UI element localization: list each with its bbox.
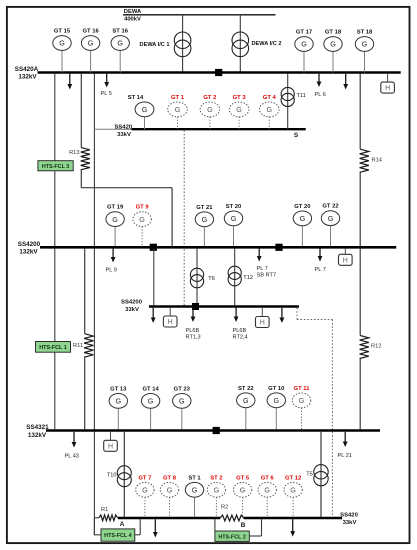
wire HTS-FCL 2 right bbox=[249, 519, 261, 536]
svg-text:33kV: 33kV bbox=[125, 307, 139, 313]
wire DEWA I/C 2 to SS420A bbox=[239, 15, 241, 73]
svg-text:PL 21: PL 21 bbox=[338, 453, 352, 459]
svg-text:GT 19: GT 19 bbox=[107, 205, 124, 211]
load arrow on 33kV bus bbox=[151, 308, 156, 323]
svg-text:SS4200: SS4200 bbox=[18, 241, 41, 248]
wire T5 bbox=[320, 432, 322, 517]
svg-text:33kV: 33kV bbox=[343, 520, 357, 526]
svg-text:ST 1: ST 1 bbox=[188, 475, 201, 481]
svg-text:ST 18: ST 18 bbox=[357, 30, 373, 36]
svg-text:HTS-FCL 3: HTS-FCL 3 bbox=[42, 164, 69, 170]
label SS420A 132kV bbox=[15, 66, 39, 81]
wire R14 to SS4200 bbox=[359, 172, 361, 246]
bus SS420 33kV bbox=[132, 128, 306, 130]
generator ST22 bbox=[237, 386, 255, 429]
transformer T12 bbox=[228, 266, 253, 286]
wire SS420A to HTS-FCL 3 bbox=[54, 74, 56, 161]
FCL box HTS-FCL 3 bbox=[38, 161, 73, 171]
svg-text:T6: T6 bbox=[208, 276, 215, 282]
wire HTS-FCL 4 right bbox=[135, 519, 140, 535]
svg-text:G: G bbox=[175, 105, 181, 114]
breaker square 2 on SS4200 bus bbox=[275, 244, 282, 251]
svg-text:G: G bbox=[179, 397, 185, 406]
bus SS420 33kV section B bbox=[244, 517, 342, 519]
generator GT10 bbox=[267, 386, 285, 429]
svg-text:GT 14: GT 14 bbox=[142, 386, 159, 392]
wire HTS-FCL 2 left bbox=[214, 519, 216, 531]
svg-text:G: G bbox=[362, 40, 368, 49]
generator GT4 bbox=[260, 95, 280, 129]
generator GT13 bbox=[109, 386, 127, 429]
breaker square on SS4200 33kV bus bbox=[192, 303, 199, 310]
svg-text:GT 2: GT 2 bbox=[203, 95, 217, 101]
load arrow right on SS420A bbox=[343, 74, 348, 90]
svg-text:T10: T10 bbox=[107, 472, 117, 478]
transformer DEWA I/C 2 bbox=[232, 32, 281, 57]
wire R13 elbow to SS4200 bbox=[81, 170, 172, 246]
load arrow A section bbox=[153, 519, 158, 537]
svg-text:T5: T5 bbox=[306, 472, 313, 478]
transformer T6 bbox=[190, 268, 214, 288]
load PL 5 bbox=[101, 74, 112, 97]
H device on SS4200 bbox=[339, 249, 353, 266]
svg-text:G: G bbox=[236, 105, 242, 114]
load PL 6 bbox=[315, 74, 326, 98]
svg-text:GT 6: GT 6 bbox=[261, 475, 275, 481]
label S section bbox=[294, 132, 299, 139]
H device on SS4321 bbox=[104, 432, 118, 452]
transformer T10 bbox=[107, 466, 131, 487]
svg-text:HTS-FCL 1: HTS-FCL 1 bbox=[39, 345, 66, 351]
svg-text:H: H bbox=[108, 443, 113, 450]
svg-text:PL 6: PL 6 bbox=[315, 92, 326, 98]
resistor R14 bbox=[360, 149, 382, 172]
generator GT7 bbox=[136, 475, 154, 517]
svg-text:132kV: 132kV bbox=[18, 73, 37, 80]
svg-text:R11: R11 bbox=[73, 343, 83, 349]
wire R11 to SS4321 bbox=[84, 357, 86, 429]
svg-text:ST 16: ST 16 bbox=[112, 29, 128, 35]
label SS420 33kV bottom bbox=[340, 512, 358, 526]
breaker square on SS4321 bus bbox=[213, 427, 220, 434]
svg-text:GT 3: GT 3 bbox=[233, 95, 247, 101]
svg-text:S: S bbox=[294, 132, 299, 139]
svg-text:GT 21: GT 21 bbox=[196, 205, 213, 211]
resistor R1 bbox=[99, 507, 118, 521]
svg-text:DEWA: DEWA bbox=[124, 9, 142, 15]
svg-text:PL6B: PL6B bbox=[186, 328, 200, 334]
transformer T5 bbox=[306, 465, 328, 486]
generator ST1 bbox=[185, 475, 203, 517]
svg-text:G: G bbox=[192, 486, 198, 495]
label R2 node B bbox=[241, 522, 246, 529]
FCL box HTS-FCL 4 bbox=[101, 529, 135, 541]
label SS4200 132kV bbox=[18, 241, 41, 256]
wire SS420A to bottom tie (x=94.4) bbox=[93, 74, 95, 536]
svg-text:GT 23: GT 23 bbox=[174, 386, 191, 392]
generator GT21 bbox=[195, 205, 213, 246]
generator GT15 bbox=[53, 29, 71, 73]
load PL 9 bbox=[106, 249, 117, 274]
svg-text:G: G bbox=[330, 40, 336, 49]
svg-text:G: G bbox=[167, 486, 173, 495]
svg-text:R13: R13 bbox=[69, 150, 79, 156]
load PL 7 right bbox=[315, 249, 326, 273]
svg-text:PL 7: PL 7 bbox=[257, 266, 268, 272]
svg-text:G: G bbox=[301, 40, 307, 49]
wire HTS-FCL 4 left bbox=[94, 518, 101, 535]
svg-text:PL 7: PL 7 bbox=[315, 267, 326, 273]
generator GT1 bbox=[168, 95, 188, 129]
H device left on 33kV bus bbox=[163, 308, 177, 327]
load PL 21 bbox=[338, 432, 352, 459]
H device on SS420A bbox=[381, 74, 395, 93]
load PL6B RT2,4 bbox=[233, 308, 248, 341]
generator GT8 bbox=[160, 475, 178, 517]
svg-text:PL 9: PL 9 bbox=[106, 268, 117, 274]
svg-text:ST 20: ST 20 bbox=[226, 204, 242, 210]
svg-text:H: H bbox=[260, 320, 265, 327]
wire SS4200 to R11 bbox=[84, 249, 86, 334]
resistor R2 bbox=[220, 505, 243, 521]
generator GT5 bbox=[233, 475, 251, 517]
svg-text:GT 12: GT 12 bbox=[285, 475, 302, 481]
svg-text:SB RT7: SB RT7 bbox=[257, 273, 276, 279]
svg-text:A: A bbox=[120, 521, 125, 528]
svg-text:ST 14: ST 14 bbox=[128, 95, 144, 101]
label SS4200 33kV bbox=[121, 299, 143, 313]
svg-text:H: H bbox=[385, 85, 390, 92]
svg-text:G: G bbox=[290, 486, 296, 495]
load PL 7 SB RT7 bbox=[257, 249, 276, 279]
wire SS4200 to HTS-FCL 1 bbox=[54, 249, 56, 342]
svg-text:ST 22: ST 22 bbox=[238, 386, 254, 392]
bus DEWA 400kV bbox=[123, 9, 276, 22]
svg-text:GT 1: GT 1 bbox=[171, 95, 185, 101]
wire HTS-FCL 3 to SS4200 bbox=[54, 171, 56, 246]
svg-text:SS420: SS420 bbox=[340, 512, 358, 518]
svg-text:SS4321: SS4321 bbox=[26, 424, 49, 431]
generator ST20 bbox=[224, 204, 242, 246]
resistor R13 bbox=[69, 148, 90, 170]
resistor R12 bbox=[360, 336, 382, 359]
svg-text:400kV: 400kV bbox=[124, 17, 141, 23]
svg-text:R12: R12 bbox=[371, 344, 381, 350]
svg-text:HTS-FCL 4: HTS-FCL 4 bbox=[104, 533, 131, 539]
transformer DEWA I/C 1 bbox=[140, 32, 191, 57]
svg-text:GT 10: GT 10 bbox=[268, 386, 285, 392]
generator GT14 bbox=[141, 386, 159, 429]
svg-text:GT 8: GT 8 bbox=[163, 475, 177, 481]
svg-text:GT 22: GT 22 bbox=[322, 204, 339, 210]
svg-text:GT 13: GT 13 bbox=[110, 386, 127, 392]
bus SS4321 132kV bbox=[46, 429, 380, 432]
svg-text:PL 5: PL 5 bbox=[101, 91, 112, 97]
svg-text:R1: R1 bbox=[101, 507, 108, 513]
load PL6B RT1,3 bbox=[186, 308, 201, 341]
svg-text:G: G bbox=[142, 486, 148, 495]
bus SS420A 132kV bbox=[38, 71, 401, 74]
generator GT3 bbox=[229, 95, 249, 129]
svg-text:G: G bbox=[202, 215, 208, 224]
svg-text:GT 5: GT 5 bbox=[236, 475, 250, 481]
svg-text:G: G bbox=[231, 214, 237, 223]
svg-text:G: G bbox=[274, 396, 280, 405]
wire 33kV bus left stub bbox=[94, 128, 131, 130]
FCL box HTS-FCL 2 bbox=[215, 531, 249, 541]
svg-text:H: H bbox=[168, 319, 173, 326]
svg-text:G: G bbox=[299, 396, 305, 405]
svg-text:G: G bbox=[207, 105, 213, 114]
wire T12 bbox=[234, 249, 236, 306]
generator GT17 bbox=[295, 30, 313, 73]
svg-text:132kV: 132kV bbox=[19, 248, 38, 255]
svg-text:GT 11: GT 11 bbox=[294, 386, 311, 392]
svg-text:HTS-FCL 2: HTS-FCL 2 bbox=[218, 534, 245, 540]
svg-text:GT 18: GT 18 bbox=[325, 30, 342, 36]
svg-text:GT 20: GT 20 bbox=[294, 204, 311, 210]
label SS420 33kV bbox=[114, 124, 132, 138]
svg-text:G: G bbox=[116, 397, 122, 406]
svg-text:G: G bbox=[139, 215, 145, 224]
resistor R11 bbox=[73, 334, 93, 358]
svg-text:33kV: 33kV bbox=[117, 132, 131, 138]
svg-text:B: B bbox=[241, 522, 246, 529]
breaker square on SS420A bus bbox=[215, 69, 222, 76]
svg-text:GT 4: GT 4 bbox=[263, 95, 277, 101]
svg-text:G: G bbox=[264, 486, 270, 495]
wire SS4200 to R12 bbox=[359, 249, 361, 336]
svg-text:G: G bbox=[117, 39, 123, 48]
svg-text:SS420A: SS420A bbox=[15, 66, 39, 73]
generator GT19 bbox=[106, 205, 124, 246]
svg-text:GT 7: GT 7 bbox=[138, 475, 151, 481]
generator GT18 bbox=[324, 30, 342, 73]
generator GT22 bbox=[321, 204, 339, 246]
svg-text:R14: R14 bbox=[372, 158, 382, 164]
svg-text:T12: T12 bbox=[243, 275, 253, 281]
svg-text:PL 43: PL 43 bbox=[65, 454, 79, 460]
generator ST18 bbox=[355, 30, 373, 73]
wire T11 bbox=[287, 74, 289, 129]
svg-text:G: G bbox=[214, 486, 220, 495]
H device right on 33kV bus bbox=[256, 308, 270, 328]
wire HTS-FCL 1 to SS4321 bbox=[54, 352, 56, 429]
wire T6 bbox=[196, 249, 198, 306]
wire SS420A to R14 bbox=[359, 74, 361, 149]
svg-text:DEWA I/C 2: DEWA I/C 2 bbox=[252, 41, 282, 47]
generator ST16 bbox=[111, 29, 129, 73]
svg-text:GT 15: GT 15 bbox=[54, 29, 71, 35]
svg-text:SS4200: SS4200 bbox=[121, 299, 143, 305]
svg-text:ST 2: ST 2 bbox=[210, 475, 223, 481]
bus SS4200 132kV bbox=[40, 246, 396, 249]
svg-text:G: G bbox=[148, 397, 154, 406]
generator GT20 bbox=[293, 204, 311, 246]
generator ST14 bbox=[128, 95, 154, 129]
svg-text:SS420: SS420 bbox=[114, 124, 132, 130]
load PL 43 bbox=[65, 432, 79, 460]
generator GT9 bbox=[133, 205, 151, 246]
svg-text:G: G bbox=[88, 39, 94, 48]
svg-text:GT 17: GT 17 bbox=[296, 30, 312, 36]
transformer T11 bbox=[281, 87, 306, 106]
svg-text:GT 9: GT 9 bbox=[136, 205, 150, 211]
svg-text:132kV: 132kV bbox=[28, 432, 47, 439]
svg-text:G: G bbox=[243, 396, 249, 405]
FCL box HTS-FCL 1 bbox=[36, 342, 71, 353]
svg-text:G: G bbox=[59, 39, 65, 48]
label R1 node A bbox=[120, 521, 125, 528]
load arrow on SS420A bbox=[67, 74, 72, 90]
generator GT2 bbox=[200, 95, 220, 129]
label SS4321 132kV bbox=[26, 424, 49, 439]
generator GT11 bbox=[292, 386, 310, 429]
bus SS420 33kV section A bbox=[118, 517, 220, 519]
svg-text:G: G bbox=[112, 215, 118, 224]
wire SS4200 to 33kV bus bbox=[153, 249, 155, 306]
svg-text:R2: R2 bbox=[221, 505, 228, 511]
svg-text:RT1,3: RT1,3 bbox=[186, 334, 201, 340]
breaker square 1 on SS4200 bus bbox=[150, 244, 157, 251]
wire T10 bbox=[123, 432, 125, 517]
generator GT6 bbox=[258, 475, 276, 517]
svg-text:T11: T11 bbox=[297, 93, 306, 99]
svg-text:PL6B: PL6B bbox=[233, 328, 247, 334]
wire R12 to SS4321 bbox=[359, 359, 361, 430]
svg-text:RT2,4: RT2,4 bbox=[233, 334, 248, 340]
wire R1 lead bbox=[94, 517, 99, 519]
svg-text:G: G bbox=[267, 105, 273, 114]
svg-text:G: G bbox=[240, 486, 246, 495]
svg-text:GT 16: GT 16 bbox=[82, 29, 99, 35]
generator GT16 bbox=[81, 29, 99, 73]
generator GT12 bbox=[284, 475, 302, 517]
svg-text:G: G bbox=[300, 214, 306, 223]
dashed planned tie line bbox=[183, 130, 185, 305]
generator ST2 bbox=[207, 475, 225, 517]
load arrow B section bbox=[290, 519, 295, 536]
svg-text:H: H bbox=[343, 257, 348, 264]
bus SS4200 33kV bbox=[149, 305, 299, 307]
generator GT23 bbox=[173, 386, 191, 429]
svg-text:DEWA I/C 1: DEWA I/C 1 bbox=[140, 42, 170, 48]
svg-text:G: G bbox=[142, 105, 148, 114]
wire SS420A to R13 bbox=[80, 74, 82, 148]
load arrow right on 33kV bus bbox=[280, 308, 285, 323]
dotted tie from 33kV bus to SS420 33kV bbox=[297, 308, 332, 517]
svg-text:G: G bbox=[328, 214, 334, 223]
wire DEWA I/C 1 to SS420A bbox=[182, 15, 184, 73]
